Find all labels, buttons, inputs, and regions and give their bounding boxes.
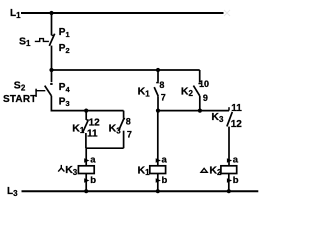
svg-text:a: a [162, 154, 168, 165]
node a (coil K1 top terminal) [156, 158, 161, 163]
svg-text:8: 8 [126, 116, 131, 126]
node b (coil K1 bottom terminal) [156, 178, 161, 183]
node b (coil K2 bottom terminal) [227, 178, 232, 183]
svg-text:K1: K1 [138, 86, 151, 99]
svg-text:a: a [90, 155, 96, 166]
svg-text:K2: K2 [181, 85, 194, 98]
wire coil K3 to L3 [85, 174, 87, 192]
node b (coil K3 bottom terminal) [84, 178, 89, 183]
svg-text:P2: P2 [59, 43, 70, 55]
svg-text:a: a [233, 154, 239, 165]
star (wye) symbol [58, 165, 64, 172]
coil K2 [221, 166, 237, 174]
junction K1 branch / cross wire [156, 109, 160, 113]
junction seal-in branch top [84, 109, 88, 113]
wire rung2 horizontal rail [52, 69, 200, 71]
coil K3 [78, 166, 94, 174]
delta symbol [201, 168, 207, 172]
svg-text:7: 7 [127, 130, 132, 140]
wire rung2 to S2 [51, 70, 53, 82]
svg-text:S2: S2 [14, 80, 26, 93]
svg-text:K3: K3 [211, 111, 224, 124]
junction coil K3 / L3 rail [84, 189, 88, 193]
junction coil K1 / L3 rail [156, 189, 160, 193]
junction L1 rail / S1 drop [49, 11, 53, 15]
svg-text:b: b [233, 175, 239, 186]
svg-text:10: 10 [199, 79, 209, 89]
junction K2 branch joins cross wire [198, 109, 202, 113]
svg-text:K3: K3 [65, 164, 78, 177]
wire S2 down and over to seal-in branch [51, 96, 86, 111]
pushbutton S1 (NC stop) [35, 34, 55, 46]
pushbutton S2 (NO start) [35, 84, 52, 97]
contact K3 8-7 [119, 111, 125, 149]
svg-text:K1: K1 [72, 122, 85, 135]
wire L1 rail break mark [224, 10, 230, 16]
wire to coil K3 [85, 148, 87, 166]
wire L3 bottom rail [22, 190, 259, 192]
svg-text:11: 11 [231, 103, 242, 114]
wire L1 top rail [21, 12, 224, 14]
svg-text:P1: P1 [59, 27, 70, 39]
junction rung2 left [49, 68, 53, 72]
contact K1 8-7 [154, 70, 159, 111]
svg-text:12: 12 [89, 117, 101, 128]
svg-text:9: 9 [203, 93, 208, 103]
coil K1 [150, 166, 166, 174]
wire parallel branch top [86, 110, 123, 112]
svg-text:12: 12 [231, 119, 243, 130]
wire coil K1 to L3 [157, 174, 159, 192]
svg-text:b: b [90, 175, 96, 186]
svg-text:b: b [162, 175, 168, 186]
wire to coil K1 [157, 111, 159, 166]
node a (coil K2 top terminal) [227, 158, 232, 163]
contact K2 10-9 [193, 70, 201, 111]
svg-text:K1: K1 [138, 164, 151, 177]
wire parallel branch bottom [86, 147, 124, 149]
svg-text:P3: P3 [59, 96, 70, 108]
svg-text:P4: P4 [59, 82, 71, 94]
wire cross to K3 11-12 [158, 110, 229, 112]
svg-text:START: START [3, 94, 37, 105]
contact K1 12-11 [83, 111, 89, 149]
svg-text:8: 8 [159, 80, 164, 90]
svg-text:11: 11 [87, 128, 98, 139]
contact K3 11-12 [227, 107, 232, 166]
svg-text:S1: S1 [19, 35, 31, 48]
svg-text:L3: L3 [7, 186, 18, 198]
wire S1 to rung2 [51, 46, 53, 70]
svg-text:7: 7 [161, 92, 166, 102]
junction rung2 / K1 8-7 drop [156, 68, 160, 72]
node a (coil K3 top terminal) [84, 158, 89, 163]
wire coil K2 to L3 [228, 174, 230, 192]
junction coil K2 / L3 rail [227, 189, 231, 193]
svg-text:L1: L1 [10, 8, 21, 20]
wire S1 drop from L1 [51, 13, 53, 35]
